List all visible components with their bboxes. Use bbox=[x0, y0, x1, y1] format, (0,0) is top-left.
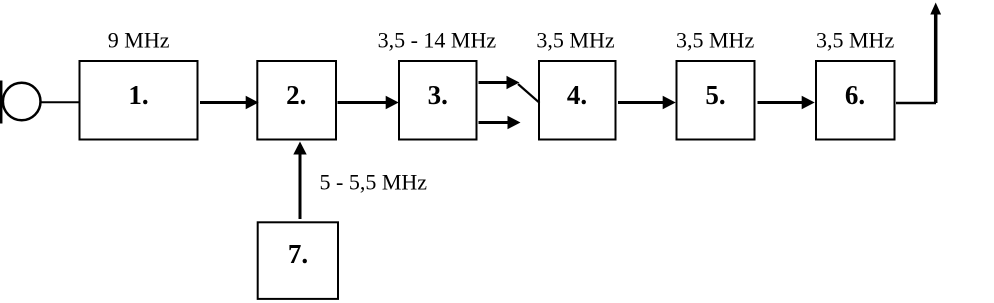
arrow block7 to block2 bbox=[293, 142, 306, 220]
microphone circle bbox=[3, 83, 41, 121]
block 3 bbox=[399, 61, 477, 140]
svg-text:3,5 MHz: 3,5 MHz bbox=[816, 28, 894, 53]
switch lower arrow bbox=[479, 116, 521, 129]
svg-text:3,5 - 14 MHz: 3,5 - 14 MHz bbox=[378, 28, 497, 53]
svg-text:4.: 4. bbox=[567, 80, 587, 110]
wire block6 to antenna bbox=[896, 102, 936, 105]
arrow block2 to block3 bbox=[338, 96, 399, 109]
svg-text:3,5 MHz: 3,5 MHz bbox=[676, 28, 754, 53]
antenna vertical arrow bbox=[930, 3, 941, 104]
svg-text:1.: 1. bbox=[128, 80, 148, 110]
switch blade diagonal bbox=[518, 84, 540, 103]
svg-text:9 MHz: 9 MHz bbox=[108, 28, 170, 53]
svg-text:5.: 5. bbox=[705, 80, 725, 110]
block 2 bbox=[257, 61, 336, 140]
svg-text:3.: 3. bbox=[428, 80, 448, 110]
wire mic to block 1 bbox=[41, 101, 80, 103]
arrow block1 to block2 bbox=[200, 96, 259, 109]
svg-text:7.: 7. bbox=[288, 239, 308, 269]
block 7 bbox=[258, 222, 338, 299]
block 6 bbox=[816, 61, 895, 140]
svg-text:2.: 2. bbox=[286, 80, 306, 110]
svg-text:3,5 MHz: 3,5 MHz bbox=[536, 28, 614, 53]
arrow block4 to block5 bbox=[618, 96, 676, 109]
microphone bar bbox=[0, 81, 2, 124]
block 1 bbox=[80, 61, 198, 140]
switch upper arrow bbox=[479, 76, 520, 89]
block 4 bbox=[539, 61, 616, 140]
svg-text:5 - 5,5 MHz: 5 - 5,5 MHz bbox=[320, 169, 428, 194]
block 5 bbox=[677, 61, 755, 140]
svg-text:6.: 6. bbox=[845, 80, 865, 110]
arrow block5 to block6 bbox=[758, 96, 815, 109]
